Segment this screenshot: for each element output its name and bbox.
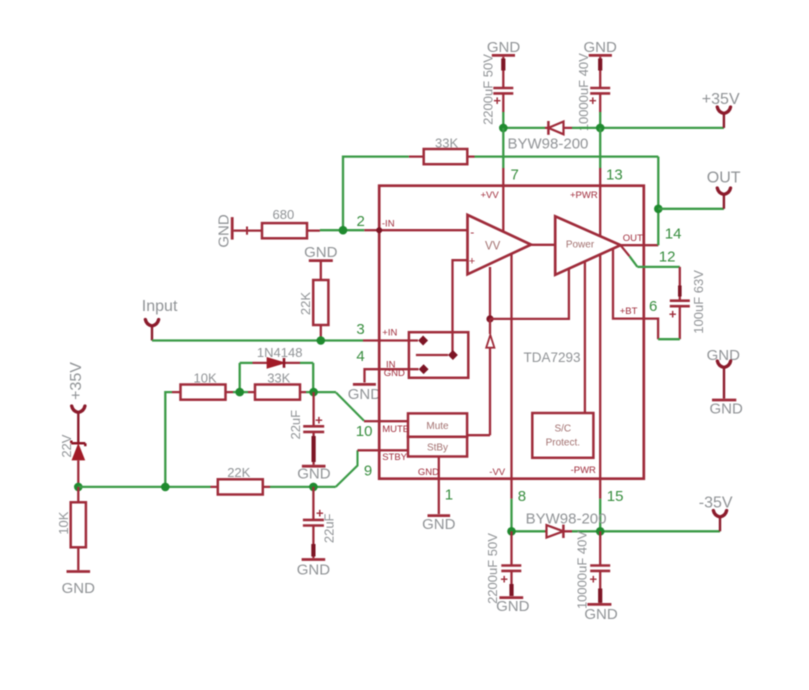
svg-text:-VV: -VV [489,467,506,478]
resistor R5 33K (horizontal) [248,370,306,399]
svg-text:GND: GND [348,386,382,403]
capacitor C7 100uF 63V (bootstrap) [669,267,706,339]
block S/C Protect [532,261,593,457]
svg-text:22V: 22V [59,434,74,457]
ground GND (top, above C1) [487,39,521,56]
wire C2 to top junction [599,112,601,128]
wire StBy to pin 1 GND [438,457,440,479]
wire pin 15 net down [599,499,601,532]
pin 3 stub [363,339,379,341]
svg-text:+35V: +35V [702,91,740,108]
wire pin13 net down from junction [599,128,601,168]
capacitor C3 2200uF 50V (bottom electrolytic) [485,531,521,604]
wire VV bias down to node [489,267,491,319]
svg-text:GND: GND [418,467,439,478]
pin 2 stub [364,229,379,231]
switch block (mute/stby input switch) [379,332,468,378]
svg-text:+: + [590,572,598,587]
svg-text:-: - [470,225,474,239]
svg-text:10: 10 [356,423,373,440]
current source arrow symbol [486,319,494,435]
wire 33K right to mute node [306,391,336,393]
svg-text:GND: GND [297,466,331,483]
wire top supply row +VV to +PWR [503,127,545,129]
wire bottom-left row [78,486,210,488]
svg-text:22uF: 22uF [322,513,337,543]
ground GND (pin 1) [422,516,456,533]
svg-text:13: 13 [606,167,623,184]
svg-text:Input: Input [142,298,178,315]
pin 7 stub [502,168,504,186]
resistor R3 22K (vertical, +IN to GND) [298,262,328,341]
pin 15 stub [599,479,601,499]
svg-text:+: + [669,306,677,321]
svg-text:100uF 63V: 100uF 63V [691,270,706,334]
svg-text:6: 6 [649,298,657,315]
svg-text:2200uF 50V: 2200uF 50V [481,54,496,125]
svg-text:14: 14 [665,226,682,243]
wire OUT to terminal [658,208,724,210]
wire +BT internal [613,248,644,318]
wire -PWR internal (pin 15) [599,255,601,479]
diode D1 BYW98-200 (top) [508,121,589,153]
svg-text:-35V: -35V [699,495,733,512]
svg-text:GND: GND [422,516,456,533]
capacitor C5 22uF (mute) [288,392,324,465]
node +IN junction [317,336,326,345]
wire +VV internal (pin 7 to amp) [502,186,504,232]
node junction row/10K-col [161,483,170,492]
terminal OUT [707,169,741,208]
supply +35V terminal (top right) [702,91,740,128]
svg-text:BYW98-200: BYW98-200 [526,510,607,527]
wire diagonal to MUTE pin [336,393,364,421]
ground GND (C5) [297,466,331,483]
ground GND (C6) [297,560,331,579]
svg-text:22uF: 22uF [288,410,303,440]
capacitor C2 10000uF 40V (top right electrolytic) [576,53,610,131]
svg-text:GND: GND [304,244,338,261]
ground GND (R6) [62,572,96,597]
svg-text:OUT: OUT [707,169,741,186]
svg-text:+VV: +VV [481,190,500,201]
pin 6 stub and wire to cap bottom [644,319,658,340]
svg-text:+: + [469,256,475,268]
svg-text:Protect.: Protect. [546,438,580,449]
block StBy [379,437,467,457]
svg-text:9: 9 [364,462,372,479]
svg-text:4: 4 [356,348,364,365]
svg-text:GND: GND [487,39,521,56]
node -IN junction [339,226,348,235]
node junction bottom left (pin8 column) [507,527,516,536]
wire pin 12 to bootstrap cap [637,266,679,268]
svg-text:7: 7 [511,167,519,184]
svg-text:680: 680 [273,207,295,222]
resistor R7 22K (horizontal, stby) [211,465,271,494]
capacitor C6 22uF (stby) [303,487,337,558]
capacitor C4 10000uF 40V (bottom electrolytic) [575,531,611,609]
resistor R4 10K (horizontal) [172,370,233,399]
svg-text:10000uF 40V: 10000uF 40V [575,531,590,609]
svg-text:Mute: Mute [426,421,449,432]
wire Input to pin 3 [152,339,363,341]
op-amp VV triangle [468,215,532,274]
ground GND (C3) [496,598,530,615]
svg-text:+35V: +35V [68,362,85,400]
wire -IN internal [379,229,467,231]
svg-text:+BT: +BT [620,306,638,317]
node junction bottom right (pin15 column) [596,527,605,536]
ground GND (above R3 22K) [304,244,338,261]
svg-text:+PWR: +PWR [570,190,598,201]
wire 680 to -IN junction [320,229,364,231]
svg-text:-PWR: -PWR [571,465,596,476]
svg-text:15: 15 [607,488,624,505]
svg-text:10K: 10K [56,511,71,534]
svg-text:2200uF 50V: 2200uF 50V [485,533,500,604]
pin 1 stub to ground [438,479,440,514]
svg-text:-IN: -IN [382,219,395,230]
pin 12 diagonal stub [621,245,630,256]
svg-text:1N4148: 1N4148 [257,345,303,360]
node junction top left (pin7 column) [499,124,508,133]
svg-text:STBY: STBY [382,452,407,463]
node junction zener/10K [74,483,83,492]
svg-text:TDA7293: TDA7293 [524,350,581,365]
terminal Input [142,298,178,341]
node junction mute/33K/22uF [309,388,318,397]
svg-text:GND: GND [62,580,96,597]
pin 10 stub MUTE [364,420,379,422]
svg-text:+: + [500,572,508,587]
wire diode to +35V [572,127,724,129]
svg-text:+IN: +IN [382,327,397,338]
node junction 10K/33K [235,388,244,397]
svg-text:GND: GND [584,606,618,623]
svg-text:MUTE: MUTE [382,424,409,435]
pin 9 stub STBY [358,449,380,451]
diode D4 zener 22V [59,434,85,487]
svg-text:GND: GND [710,401,744,418]
svg-text:10K: 10K [194,370,217,385]
wire pin 8 net down [510,499,512,532]
wire 10K left corner down [165,392,172,487]
ground GND (C4) [584,604,618,623]
pin 4 stub and wire to ground [365,369,380,382]
wire VV out to Power in [531,244,555,246]
node internal junction [486,315,493,322]
supply +35V terminal (left) [68,362,85,444]
supply -35V terminal [699,495,733,532]
wire + input internal (to switch) [453,260,468,355]
svg-text:12: 12 [659,249,676,266]
svg-text:StBy: StBy [427,442,448,453]
svg-text:S/C: S/C [554,424,571,435]
svg-text:33K: 33K [267,370,290,385]
wire diode to -35V [572,530,720,532]
wire bottom supply row [512,530,546,532]
op-amp Power triangle [555,216,620,274]
wire 10K to 33K [233,391,248,393]
svg-text:BYW98-200: BYW98-200 [508,136,589,153]
svg-text:Power: Power [566,240,595,251]
wire -VV internal (pin 8) [510,254,512,479]
svg-text:1: 1 [445,486,453,503]
ground GND (pin 4) [348,384,382,402]
svg-text:3: 3 [356,321,364,338]
wire feedback left (to -IN node) [343,157,409,231]
svg-text:GND: GND [297,561,331,578]
node junction top right (pin13 column) [596,124,605,133]
wire OUT net up to feedback [657,157,659,246]
wire +PWR internal (pin 13 to power amp) [599,186,601,236]
wire pin6 net [658,338,680,340]
wire 22K right to stby node [270,486,336,488]
diode D2 BYW98-200 (bottom) [526,510,607,538]
wire node to power amp underside [490,269,569,319]
svg-text:VV: VV [485,240,501,252]
svg-text:2: 2 [357,213,365,230]
wire feedback right (to pin 14 column, crosses pin7/pin13 nets) [475,155,659,157]
ground GND (rotated, left of R2 680) [216,214,233,248]
block Mute [379,413,490,436]
op-amp U1 TDA7293 IC outline [379,186,644,479]
svg-text:22K: 22K [298,292,313,315]
diode D3 1N4148 (across R5 33K) [240,345,314,392]
capacitor C1 2200uF 50V (top left electrolytic) [481,54,514,125]
pin 8 stub [510,479,512,499]
resistor R1 33K (feedback, top) [409,135,475,164]
svg-text:10000uF 40V: 10000uF 40V [576,53,591,131]
svg-text:GND: GND [707,347,741,364]
svg-text:GND: GND [496,598,530,615]
wire pin7 net down from junction [502,128,504,168]
node OUT junction [654,205,663,214]
ground GND (top, above C2) [584,39,618,56]
resistor R6 10K (vertical, to GND) [56,487,86,570]
terminal GND pair (right) [707,347,743,417]
resistor R2 680 (to -IN) [234,207,320,239]
wire C1 to top junction [502,112,504,128]
svg-text:OUT: OUT [623,233,643,244]
svg-text:8: 8 [518,488,526,505]
node junction stby/22uF [309,483,318,492]
pin 13 stub [599,168,601,186]
wire diagonal+riser to STBY pin [336,450,358,487]
svg-text:+: + [316,505,324,520]
svg-text:22K: 22K [227,465,250,480]
pin 14 OUT stub [621,244,659,246]
svg-text:GND: GND [216,214,233,248]
